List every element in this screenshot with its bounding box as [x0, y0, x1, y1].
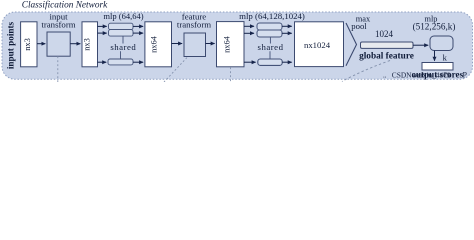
- shared mlp stack 2 (top): [257, 23, 282, 30]
- svg-text:nx3: nx3: [82, 38, 91, 51]
- wires around bottom box 1: [98, 61, 107, 63]
- wire input transform to box2: [70, 43, 80, 45]
- svg-text:pool: pool: [351, 21, 367, 31]
- box nx3 #1: [21, 22, 37, 67]
- svg-text:mlp (64,64): mlp (64,64): [103, 11, 143, 21]
- svg-text:shared: shared: [258, 42, 284, 52]
- svg-text:nx64: nx64: [223, 35, 232, 53]
- svg-text:1024: 1024: [375, 29, 394, 39]
- svg-text:nx3: nx3: [23, 38, 32, 51]
- svg-text:nx1024: nx1024: [304, 40, 331, 50]
- wires stack1 to nx64: [133, 25, 143, 27]
- shared mlp stack 1 (top): [109, 23, 134, 29]
- shared mlp bottom box 2: [258, 59, 282, 65]
- svg-text:mlp (64,128,1024): mlp (64,128,1024): [239, 11, 305, 21]
- input transform T-net box: [47, 32, 70, 56]
- wire mlp down to scores, label k: [434, 51, 436, 61]
- svg-text:CSDN: CSDN: [392, 71, 412, 80]
- svg-text:Classification Network: Classification Network: [22, 0, 108, 10]
- wires stack2 to nx1024: [282, 25, 292, 27]
- box nx1024: [295, 22, 344, 67]
- wire box1 to input transform: [37, 43, 45, 45]
- wires box2 to shared stack 1: [98, 25, 107, 27]
- dashed arc to segmentation (cropped): [342, 61, 390, 82]
- box nx3 #2: [82, 22, 98, 67]
- svg-text:nx64: nx64: [149, 35, 158, 53]
- box nx64 #2: [217, 22, 245, 67]
- shared ticks and label 2: [269, 37, 271, 44]
- wire feature transform to nx64 #2: [206, 43, 215, 45]
- wire global feature to mlp: [413, 44, 428, 46]
- svg-text:output scores: output scores: [411, 70, 463, 80]
- panel background: [2, 12, 473, 79]
- svg-text:k: k: [443, 53, 448, 63]
- svg-text:(512,256,k): (512,256,k): [413, 22, 456, 32]
- svg-text:transform: transform: [177, 20, 211, 30]
- shared ticks and label 1: [122, 36, 124, 43]
- dashed link below nx64 #2: [230, 67, 232, 82]
- svg-text:global feature: global feature: [359, 52, 414, 62]
- mlp (512,256,k) box: [430, 36, 453, 51]
- svg-text:P: P: [463, 70, 468, 79]
- output scores box: [422, 63, 453, 71]
- wires around bottom box 2: [244, 61, 256, 63]
- svg-text:..: ..: [383, 72, 387, 80]
- feature transform T-net box: [184, 33, 206, 57]
- svg-text:input points: input points: [5, 21, 15, 69]
- global feature bar: [361, 42, 414, 48]
- shared mlp bottom box 1: [108, 59, 133, 65]
- wire nx64 to feature transform: [172, 43, 183, 45]
- dashed line below input transform: [57, 56, 59, 82]
- max pool chevron: [346, 23, 357, 66]
- svg-text:transform: transform: [41, 20, 75, 30]
- dashed line below feature transform: [164, 58, 187, 83]
- svg-text:shared: shared: [110, 42, 136, 52]
- box nx64 #1: [145, 22, 172, 67]
- wires nx64#2 to shared stack 2: [244, 25, 254, 27]
